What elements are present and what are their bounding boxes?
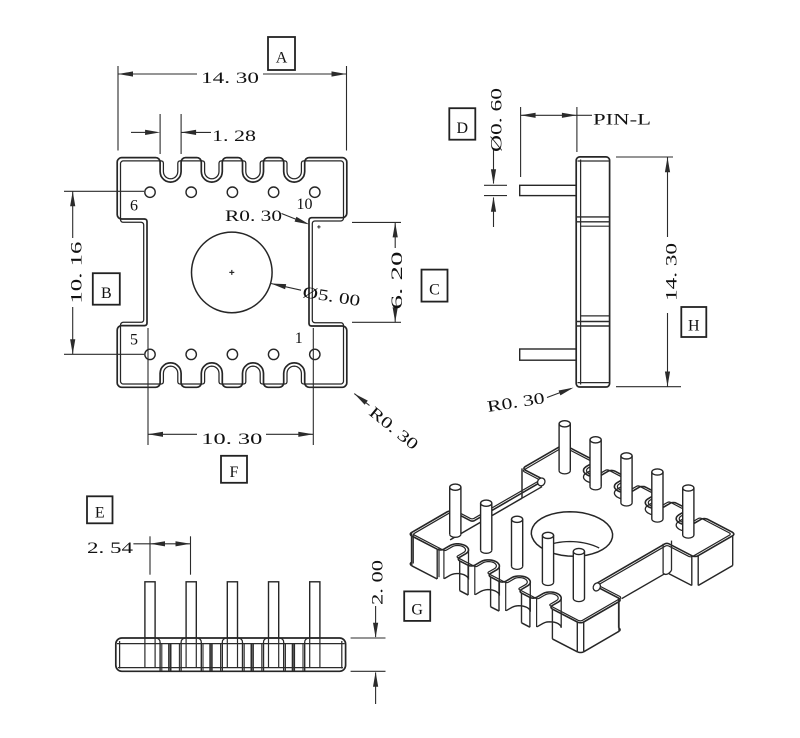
3d view: pins	[559, 421, 570, 474]
dim 10.16 left: dimension line and arrows	[72, 191, 74, 238]
top view: center mark	[229, 271, 234, 273]
front view: inner contour lines	[119, 641, 121, 669]
svg-text:C: C	[429, 282, 440, 299]
view label D	[449, 108, 475, 140]
svg-text:R0. 30: R0. 30	[225, 208, 282, 225]
svg-text:5: 5	[130, 332, 138, 349]
svg-text:1: 1	[295, 330, 303, 347]
svg-text:D: D	[457, 120, 469, 137]
top view: chamfer inner contour	[121, 161, 344, 384]
svg-text:14. 30: 14. 30	[664, 243, 681, 301]
dim 10.30 bottom: extension lines	[147, 328, 149, 445]
dim 2.54: dimension line and arrows	[150, 541, 165, 546]
dim 10.16 left: extension lines	[64, 190, 144, 192]
3d view: bottom front edge segments between channels	[412, 566, 437, 579]
top view: bobbin outer contour (14.30 x 14.30)	[117, 158, 347, 388]
3d view: vertical edges at silhouette corners	[411, 533, 413, 563]
dim 2.54: extension lines	[149, 536, 151, 574]
dim 1.28: arrows and leader	[145, 130, 160, 135]
svg-text:A: A	[276, 50, 288, 67]
view label E	[87, 496, 113, 523]
svg-text:PIN-L: PIN-L	[593, 112, 651, 129]
3d view: right notch shelf bottom edges	[622, 574, 665, 599]
3d view: bottom right block right edge	[584, 631, 619, 652]
front view: notch slots	[159, 643, 161, 672]
dim 14.30 side: extension lines	[616, 156, 673, 158]
svg-text:2. 00: 2. 00	[370, 560, 387, 605]
dim 10.30 bottom: dimension line and arrows	[148, 433, 197, 435]
svg-text:G: G	[411, 601, 423, 618]
dim 2.00: extension lines	[351, 637, 386, 639]
view label B	[93, 273, 120, 305]
svg-text:6: 6	[130, 198, 138, 215]
svg-text:2. 54: 2. 54	[87, 540, 133, 557]
dim 1.28: extension lines	[159, 114, 161, 154]
dim 14.30 side: dimension line and arrows	[667, 157, 669, 237]
3d view: back edge notch channels inner wall arcs	[584, 471, 593, 483]
dim PIN-L: extension lines	[520, 107, 522, 177]
label dia 5.00 with leader	[271, 284, 301, 291]
side view: flange divider lines lower	[581, 315, 610, 317]
svg-text:10. 30: 10. 30	[201, 431, 262, 448]
dim 6.20 right: extension lines	[352, 221, 401, 223]
svg-text:10. 16: 10. 16	[69, 242, 86, 304]
svg-text:Ø0. 60: Ø0. 60	[489, 88, 506, 152]
view label A	[268, 37, 295, 70]
svg-text:1. 28: 1. 28	[212, 128, 256, 145]
side view: chamfer lines	[580, 160, 582, 385]
3d view: plate top face outline	[410, 446, 734, 623]
top view: pin holes row 1-5	[145, 349, 155, 359]
3d view: right notch corner cap at (309,326)	[592, 582, 602, 593]
svg-text:14. 30: 14. 30	[201, 70, 259, 87]
front view: pins	[145, 582, 155, 638]
3d view: right notch corner cylinder at (309,218)	[662, 544, 664, 574]
label R0.30 lower-right with leader	[354, 394, 368, 405]
dim PIN-L: dimension line and arrows	[521, 114, 577, 116]
3d view: left notch pocket	[521, 468, 523, 498]
3d view: plate top chamfer contour	[414, 447, 730, 620]
3d view: bottom silhouette left block	[410, 562, 412, 566]
svg-text:6. 20: 6. 20	[389, 252, 406, 310]
svg-text:E: E	[95, 504, 105, 521]
3d view: left block corner vertical (doubled)	[412, 534, 414, 564]
view label H	[681, 307, 706, 337]
dim 14.30 top: dimension line and arrows	[118, 73, 197, 75]
dim 6.20 right: dimension line and arrows	[394, 222, 396, 248]
dim 0.60 dia: arrows and extension dashes	[493, 150, 495, 184]
side view: body outline	[576, 157, 609, 387]
3d view: left block front-right corner vertical (doubled)	[438, 547, 440, 577]
dim 2.00: arrows	[375, 606, 377, 637]
svg-text:F: F	[230, 464, 239, 481]
svg-text:10: 10	[297, 196, 313, 213]
front view: body outline	[116, 638, 346, 671]
front view: flange top line	[117, 643, 345, 645]
view label F	[221, 456, 247, 483]
3d view: front channels (horseshoes)	[444, 574, 468, 580]
view label C	[422, 270, 448, 302]
side view: lower pin	[520, 349, 577, 360]
top view: center hole (5.00 dia)	[192, 232, 273, 313]
dim 14.30 top: extension lines	[117, 66, 119, 151]
side view: upper pin	[520, 185, 577, 195]
top view: pin holes row 6-10	[145, 187, 155, 197]
3d view: center hole bottom rim visible arc	[542, 542, 600, 549]
3d view: right block edges	[698, 566, 733, 586]
view label G	[404, 591, 430, 621]
3d view: center hole top rim	[531, 512, 612, 557]
side view: flange divider lines upper	[576, 216, 609, 218]
svg-text:B: B	[101, 285, 112, 302]
svg-text:H: H	[688, 317, 700, 334]
